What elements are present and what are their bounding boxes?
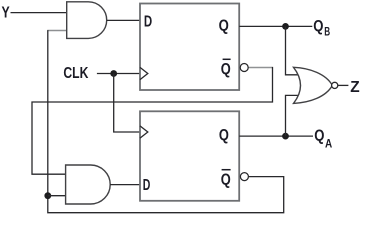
svg-text:Q: Q (219, 127, 229, 144)
svg-text:B: B (324, 25, 330, 39)
D flip-flop U2 (bottom) (140, 111, 239, 201)
svg-text:Z: Z (350, 79, 360, 96)
svg-text:Q: Q (313, 18, 323, 35)
node junction on Qbar2 net at AND2 input 2 (44, 192, 51, 199)
wire QB down to NOR input 1 (286, 26, 301, 74)
svg-text:Q: Q (219, 17, 229, 34)
NOR gate (294, 67, 333, 103)
wire CLK to FF1 clock (97, 73, 140, 75)
wire AND1 output to FF1 D (107, 19, 140, 21)
wire Q2 to QA label (239, 135, 313, 137)
AND gate (top) (67, 2, 107, 39)
wire Qbar2 feedback net: left vertical, bottom run, right riser to FF2 Qbar (47, 31, 283, 213)
svg-text:A: A (325, 137, 333, 150)
wire AND2 input 2 stub (48, 195, 66, 197)
node CLK junction (110, 70, 117, 77)
svg-text:Q: Q (221, 171, 231, 188)
svg-text:Y: Y (2, 4, 11, 21)
svg-text:Q: Q (221, 61, 231, 78)
bubble NOR output (332, 82, 338, 88)
wire Qbar1 stub from bubble (248, 67, 272, 69)
wire CLK down to FF2 clock (114, 74, 140, 133)
node QB junction (282, 23, 289, 30)
svg-text:CLK: CLK (63, 65, 88, 82)
wire NOR output to Z (338, 84, 349, 86)
wire Y to AND1 input 1 (11, 12, 67, 14)
svg-text:Q: Q (314, 127, 324, 144)
wire Q1 to QB label (239, 25, 312, 27)
clock triangle FF2 (140, 126, 148, 138)
bubble Qbar1 (240, 64, 248, 72)
node QA junction (282, 133, 289, 140)
wire AND1 input 2 stub (48, 30, 66, 32)
wire Qbar1 to AND2 input 1 (32, 68, 273, 175)
svg-text:D: D (144, 13, 152, 30)
AND gate (bottom) (66, 165, 111, 204)
svg-text:D: D (143, 177, 151, 194)
wire AND2 output to FF2 D (110, 184, 140, 186)
clock triangle FF1 (140, 67, 148, 79)
D flip-flop U1 (top) (140, 4, 239, 91)
bubble Qbar2 (240, 173, 248, 181)
wire QA up to NOR input 2 (286, 95, 301, 136)
